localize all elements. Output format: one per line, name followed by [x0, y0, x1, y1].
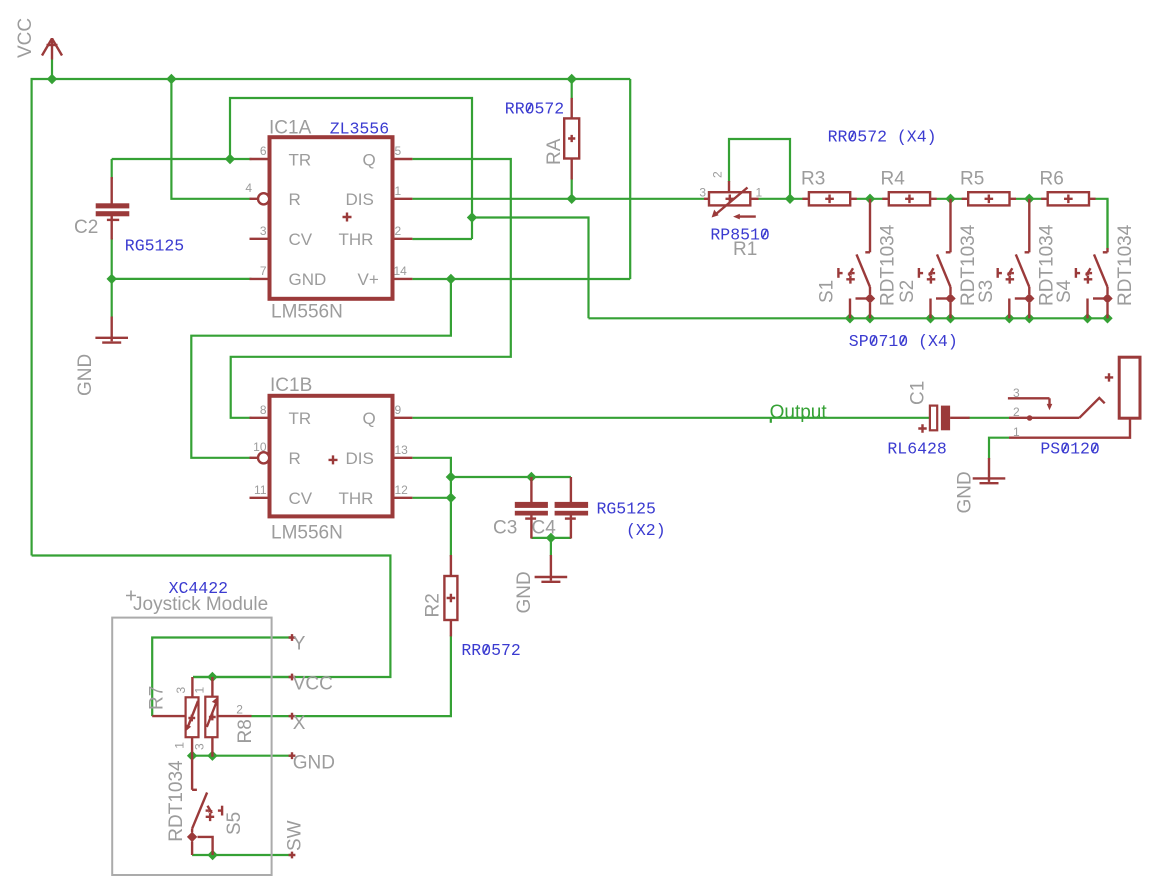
svg-text:3: 3: [260, 224, 267, 238]
junction VCC at RA top on bus: [567, 74, 577, 84]
junction C2 bottom / GND net: [107, 274, 117, 284]
wire Q(A) net: IC1A pin 5 to IC1B pin 8: [231, 159, 511, 418]
wire pin 13 node across to C3 and C4 tops: [451, 476, 571, 478]
junction S3 feet on bottom bus: [1004, 313, 1014, 323]
svg-text:X: X: [293, 713, 306, 734]
IC1A pin 3 CV stub: [250, 238, 270, 240]
junction node R4/R5 switch S2 tap: [945, 194, 955, 204]
wire C3/C4 bottoms joined: [531, 537, 571, 539]
junction R1/R3 node: [785, 194, 795, 204]
capacitor C1 (RL6428) electrolytic plates: [918, 406, 969, 433]
wire VCC top bus horizontal: [31, 78, 631, 80]
junction module VCC node (R7 pin3 / R8 pin1): [207, 672, 217, 682]
junction node R3/R4 switch S1 tap: [865, 194, 875, 204]
module port tick X: [289, 713, 296, 720]
svg-text:RG5125: RG5125: [597, 500, 656, 519]
wire C3/C4 GND drop (green part): [550, 538, 552, 556]
svg-text:2: 2: [236, 703, 243, 717]
wire V+ row: IC1A pin 14 to right vertical: [412, 278, 630, 280]
svg-text:PS0120: PS0120: [1040, 440, 1099, 459]
wire VCC right vertical down to V+ row: [629, 79, 631, 279]
switch S4 (pushbutton RDT1034): [1076, 199, 1113, 318]
switch S1 (pushbutton RDT1034): [838, 199, 875, 318]
junction node R5/R6 switch S3 tap: [1024, 194, 1034, 204]
svg-text:RR0572 (X4): RR0572 (X4): [828, 128, 937, 147]
wire VCC: symbol drop to top bus: [51, 60, 53, 80]
svg-text:3: 3: [1013, 386, 1020, 400]
svg-text:ZL3556: ZL3556: [330, 120, 389, 139]
wire RA bottom lead (green part): [571, 179, 573, 199]
jack pin numbers 3 2 1: [1013, 386, 1020, 439]
svg-text:GND: GND: [289, 270, 327, 289]
svg-text:S3: S3: [976, 280, 997, 303]
IC1B pin 10 R stub with inverting bubble: [250, 452, 270, 463]
svg-text:TR: TR: [289, 150, 312, 169]
svg-text:GND: GND: [293, 753, 335, 774]
svg-text:2: 2: [1013, 405, 1020, 419]
wire joystick VCC port row inside module: [193, 676, 292, 678]
label Joystick Module with origin cross: [126, 591, 268, 616]
junction S5 branch on SW row: [207, 850, 217, 860]
module port tick VCC: [289, 674, 296, 681]
svg-text:R5: R5: [960, 169, 984, 190]
IC1B pin 8 TR stub: [250, 417, 270, 419]
svg-text:IC1B: IC1B: [270, 375, 312, 396]
svg-text:3: 3: [174, 687, 188, 694]
trimmer R7 (joystick X pot) body: [152, 677, 198, 757]
resistor R5: [962, 192, 1016, 205]
svg-text:4: 4: [245, 181, 252, 195]
svg-text:SP0710 (X4): SP0710 (X4): [849, 332, 958, 351]
joystick module XC4422 frame: [112, 618, 271, 875]
svg-text:TR: TR: [289, 409, 312, 428]
svg-text:5: 5: [395, 144, 402, 158]
wire THR net to switch bottom bus: [472, 218, 589, 319]
ground symbol GND at C2: [95, 317, 128, 343]
svg-text:R: R: [289, 449, 301, 468]
junction S1 feet on bottom bus: [845, 313, 855, 323]
svg-text:R3: R3: [801, 169, 825, 190]
svg-text:C3: C3: [493, 518, 517, 539]
junction on V+ row at x=450.9: [446, 274, 456, 284]
svg-text:RR0572: RR0572: [461, 641, 520, 660]
svg-text:C4: C4: [532, 518, 557, 539]
capacitor C3 plates and leads: [515, 477, 548, 539]
wire C2 top lead (green part): [111, 159, 113, 179]
IC1A pin 5 Q stub: [393, 158, 413, 160]
trimmer potentiometer R1 (RP8510): [704, 181, 759, 219]
IC1B pin 12 THR stub: [393, 497, 413, 499]
svg-text:SW: SW: [285, 820, 306, 851]
svg-text:Y: Y: [293, 634, 306, 655]
svg-text:RR0572: RR0572: [505, 100, 564, 119]
svg-text:3: 3: [193, 743, 207, 750]
switch S3 (pushbutton RDT1034): [998, 199, 1035, 318]
svg-text:DIS: DIS: [346, 449, 374, 468]
resistor R3 (RR0572): [802, 192, 856, 205]
IC1B pin names: [289, 409, 376, 508]
svg-text:1: 1: [173, 742, 187, 749]
wire Output net: IC1B pin 9 to C1: [412, 417, 930, 419]
IC1A pin 2 THR stub: [393, 238, 413, 240]
svg-text:DIS: DIS: [346, 190, 374, 209]
wire R3 to R4: [856, 198, 883, 200]
resistor R6: [1041, 192, 1095, 205]
svg-text:CV: CV: [289, 489, 313, 508]
wire R1 wiper loop (pin 2 over to pin 1 node): [729, 139, 790, 199]
svg-text:C2: C2: [74, 217, 98, 238]
wire C2 bottom to GND and IC1A pin 7: [111, 238, 113, 317]
IC1B pin 11 CV stub: [250, 497, 270, 499]
resistor R4: [882, 192, 936, 205]
svg-text:GND: GND: [955, 471, 976, 513]
svg-text:RA: RA: [544, 138, 565, 165]
svg-text:RDT1034: RDT1034: [877, 224, 898, 306]
svg-text:1: 1: [1013, 425, 1020, 439]
jack plus mark: [1105, 373, 1113, 381]
svg-text:13: 13: [395, 443, 409, 457]
svg-text:Q: Q: [363, 409, 376, 428]
svg-text:Output: Output: [770, 402, 828, 423]
svg-text:THR: THR: [339, 489, 374, 508]
resistor R2 (RR0572) vertical: [444, 555, 457, 636]
svg-text:14: 14: [394, 264, 408, 278]
module port tick SW: [289, 852, 296, 859]
svg-text:10: 10: [253, 440, 267, 454]
wire joystick SW row: [192, 854, 292, 856]
wire DIS/THR(B) net: pin 13 down and over to C3/C4: [412, 458, 451, 557]
wire jack pin 1 to GND (green parts): [989, 438, 1009, 459]
IC1A pin 14 V+ stub: [393, 278, 413, 280]
trimmer R8 (joystick Y pot) body: [205, 677, 251, 757]
junction THR net at (472,217.5): [467, 212, 477, 222]
jack pin 3 lead with switch arrow: [1008, 398, 1052, 410]
jack pin 1 lead to sleeve: [1009, 418, 1130, 438]
switch S5 (joystick button RDT1034): [187, 756, 222, 855]
svg-text:C1: C1: [908, 381, 929, 405]
wire R6 to switch S4 tap: [1095, 199, 1108, 248]
svg-text:R7: R7: [147, 686, 168, 710]
IC1A pin numbers: [245, 144, 407, 278]
svg-text:S5: S5: [224, 812, 245, 835]
wire DIS net: IC1A pin 1 to trimmer R1 pin 3: [412, 198, 704, 200]
module port tick GND: [289, 752, 296, 759]
svg-text:1: 1: [193, 687, 207, 694]
svg-text:9: 9: [395, 403, 402, 417]
svg-text:R: R: [289, 190, 301, 209]
ground symbol GND at output jack: [973, 458, 1006, 483]
wire C1 right to jack pin 2 (green part): [969, 417, 1009, 419]
capacitor C2 (RG5125) plates and leads: [96, 177, 130, 240]
junction TR net at x=230: [225, 154, 235, 164]
wire switch bottom bus horizontal: [589, 317, 1108, 319]
wire net TR/THR: C2 top to IC1A pin 6: [112, 158, 252, 160]
IC1A origin cross: [343, 213, 352, 222]
svg-text:Q: Q: [363, 150, 376, 169]
wire R1 pin 1 to R3: [758, 198, 803, 200]
resistor RA (RR0572) vertical: [564, 98, 579, 180]
op IC1A body (LM556N timer half A): [270, 137, 393, 299]
slashed zeros of mono value labels: [484, 103, 1097, 653]
svg-text:V+: V+: [358, 270, 379, 289]
op IC1B body (LM556N timer half B): [270, 396, 393, 517]
svg-text:RDT1034: RDT1034: [1115, 224, 1136, 306]
junction R7 pin 1 on GND row: [187, 751, 197, 761]
junction DIS(B) node at x=450.9: [446, 472, 456, 482]
svg-text:VCC: VCC: [15, 18, 36, 58]
svg-text:R2: R2: [423, 593, 444, 617]
wire IC1B pin 12 THR connector: [412, 497, 451, 499]
svg-text:LM556N: LM556N: [271, 302, 343, 323]
junction VCC branch on top bus: [166, 74, 176, 84]
wire RA top lead (green part): [571, 79, 573, 99]
junction C3 top tap: [526, 472, 536, 482]
wire VCC branch down to IC1A pin 4 (R): [171, 79, 251, 199]
IC1B origin cross: [329, 455, 338, 464]
svg-text:VCC: VCC: [293, 673, 333, 694]
svg-text:7: 7: [260, 264, 267, 278]
svg-text:Joystick Module: Joystick Module: [133, 594, 268, 615]
svg-text:GND: GND: [75, 354, 96, 396]
svg-text:RL6428: RL6428: [887, 440, 946, 459]
svg-text:RDT1034: RDT1034: [166, 760, 187, 842]
wire VCC left vertical down to joystick feed: [31, 78, 33, 556]
capacitor C4 plates and leads: [555, 477, 589, 539]
IC1B pin 9 Q stub: [393, 417, 413, 419]
svg-text:S2: S2: [897, 280, 918, 303]
IC1A pin 6 TR stub: [250, 158, 270, 160]
svg-text:THR: THR: [339, 230, 374, 249]
junction S2 feet on bottom bus: [925, 313, 935, 323]
junction S4 feet on bottom bus: [1082, 313, 1092, 323]
wire IC1A pin 2 THR connector: [412, 238, 472, 240]
switch S2 (pushbutton RDT1034): [919, 199, 956, 318]
svg-text:12: 12: [395, 483, 409, 497]
junction C3/C4 GND tap: [546, 533, 556, 543]
IC1A pin names: [289, 150, 379, 289]
svg-text:11: 11: [254, 483, 267, 497]
wire VCC from V+ junction to IC1B pin 10 (R): [191, 279, 451, 458]
svg-text:R1: R1: [733, 239, 757, 260]
svg-text:S1: S1: [817, 280, 838, 303]
value label RG5125 (X2) for C3/C4 (blue): [597, 500, 666, 541]
jack pin 2 lead with contact dot and tip lever: [1009, 398, 1105, 421]
svg-text:1: 1: [756, 185, 763, 199]
junction R8 pin 3 on GND row: [207, 751, 217, 761]
connector X1 jack PS0120 sleeve body: [1119, 357, 1140, 418]
svg-text:CV: CV: [289, 230, 313, 249]
ground symbol GND at C3/C4: [535, 555, 568, 582]
svg-text:GND: GND: [514, 571, 535, 613]
svg-text:1: 1: [395, 184, 402, 198]
junction THR(B) at R2 column: [446, 493, 456, 503]
power symbol VCC (supply arrow, top-left): [42, 38, 62, 60]
wire joystick Y port to R7 wiper column: [152, 638, 292, 717]
svg-text:S4: S4: [1054, 279, 1075, 303]
svg-text:2: 2: [395, 224, 402, 238]
IC1A pin 4 R stub with inverting bubble: [250, 193, 270, 204]
svg-text:R4: R4: [881, 169, 906, 190]
IC1B pin numbers: [253, 403, 408, 497]
wire joystick GND row: [192, 755, 292, 757]
wire X net: R2 bottom down and left to joystick X port: [252, 635, 451, 716]
wire R5 to R6: [1016, 198, 1042, 200]
IC1B pin 13 DIS stub: [393, 457, 413, 459]
junction VCC at supply arrow: [47, 74, 57, 84]
net label Output (green) with origin tick: [770, 402, 828, 423]
IC1A pin 7 GND stub: [250, 278, 270, 280]
wire TR net: up-over to THR junction and switch bus feed: [230, 98, 472, 239]
svg-text:6: 6: [260, 144, 267, 158]
wire GND row to IC1A pin 7: [112, 278, 252, 280]
wire VCC joystick feed: left vertical to module VCC port: [32, 556, 391, 678]
svg-text:R6: R6: [1040, 169, 1064, 190]
wire R4 to R5: [936, 198, 962, 200]
junction RA bottom on DIS row: [567, 194, 577, 204]
svg-text:LM556N: LM556N: [271, 523, 343, 544]
svg-text:RG5125: RG5125: [125, 237, 184, 256]
svg-text:IC1A: IC1A: [269, 118, 312, 139]
svg-text:8: 8: [260, 403, 267, 417]
IC1A pin 1 DIS stub: [393, 198, 413, 200]
svg-text:R8: R8: [235, 719, 256, 743]
svg-text:3: 3: [699, 185, 706, 199]
svg-text:(X2): (X2): [626, 521, 666, 540]
svg-text:2: 2: [711, 171, 725, 178]
module port tick Y: [289, 634, 296, 641]
